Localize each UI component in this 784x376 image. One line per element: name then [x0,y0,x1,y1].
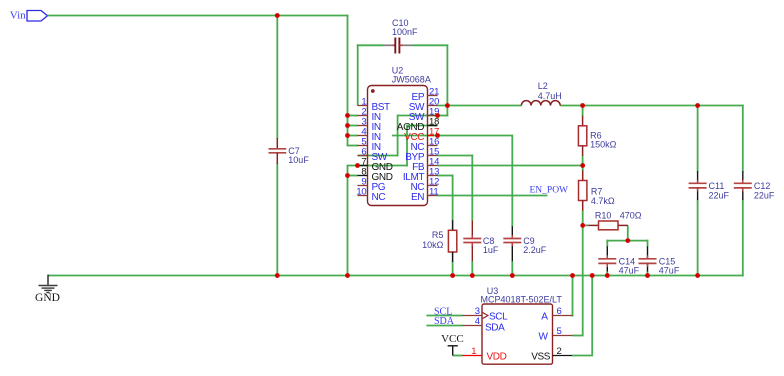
U3 designator label [487,286,499,296]
svg-text:2.2uF: 2.2uF [523,245,547,255]
C7 value label [288,155,309,165]
U2 pin 4 IN [358,127,381,144]
capacitor C14 [598,246,616,271]
junction R7/R10/W [580,223,585,228]
U2 pin 10 NC [356,187,385,204]
R6 value label [590,140,617,150]
wire ILMT branch down to R5 [452,175,454,221]
R5 value label [422,240,444,250]
junction pin4 [345,133,350,138]
U2 pin 7 GND [358,157,393,174]
capacitor C9 [503,226,521,261]
wire GND stem [47,275,49,286]
svg-text:100nF: 100nF [392,27,418,37]
U3 pin 2 VSS [531,346,572,362]
svg-text:4.7kΩ: 4.7kΩ [591,196,615,206]
C12 designator label [754,181,771,191]
C9 designator label [523,236,535,246]
wire pin19 through IC [399,115,438,117]
junction pin17 stub [435,133,440,138]
wire U3 VSS jumper [572,355,593,357]
wire right edge down C12 upper [742,105,744,172]
wire jumper pin3 [348,125,359,127]
port Vin [10,10,48,22]
wire VCC to VDD [453,355,463,357]
wire BYP pin15 [438,155,474,157]
U3 pin 5 W [538,326,572,342]
U2 pin 15 BYP [405,147,439,164]
U2 pin 17 VCC [404,127,439,144]
U2 pin 20 SW [409,97,439,114]
wire VCC pin17 [392,135,512,137]
C14 designator label [619,257,636,267]
wire C15 branch lower [647,271,649,276]
junction rail VSS [590,273,595,278]
wire pin19 to SW node [438,106,449,117]
U3 value label [481,295,563,305]
svg-text:150kΩ: 150kΩ [590,140,617,150]
R10 value label [620,210,642,220]
svg-text:470Ω: 470Ω [620,210,642,220]
wire vertical into IN pins [347,15,349,147]
svg-text:VCC: VCC [441,333,464,345]
wire ILMT pin13 [438,175,454,177]
junction rail GNDwire [345,273,350,278]
wire R5 to rail [452,262,454,277]
R10 designator label [595,210,612,220]
U2 pin 3 IN [358,117,381,134]
U2 pin 2 IN [358,107,381,124]
svg-text:6: 6 [557,306,562,317]
svg-text:4: 4 [475,316,480,327]
junction rail C14 [605,273,610,278]
wire R6 branch upper [582,106,584,117]
svg-text:11: 11 [429,187,438,198]
wire Vin to top-right corner [48,15,349,17]
R6 designator label [590,130,602,140]
wire jumper pin8 [348,175,359,177]
C8 designator label [483,236,495,246]
svg-text:10kΩ: 10kΩ [422,240,444,250]
wire ground rail [48,275,744,277]
svg-text:W: W [538,331,548,342]
junction pin8 [345,173,350,178]
svg-text:22uF: 22uF [709,190,730,200]
wire BYP branch down to C8 [471,155,473,222]
U2 pin 9 PG [358,177,386,194]
wire FB pin14 [438,165,583,167]
svg-text:VDD: VDD [487,351,507,362]
svg-text:10uF: 10uF [288,155,309,165]
svg-text:JW5068A: JW5068A [392,75,431,85]
op-amp U2 body JW5068A [368,86,428,206]
wire jumper pin4 [348,135,359,137]
capacitor C7 [269,138,287,164]
svg-text:R10: R10 [595,210,612,220]
svg-text:GND: GND [35,292,60,304]
wire SCL net [426,315,463,317]
wire C11 branch upper [697,106,699,172]
junction rail C11 [695,273,700,278]
capacitor C10 [383,38,413,54]
wire R7 branch lower [582,210,584,225]
L2 designator label [538,81,548,91]
wire C14 C15 bracket [606,240,648,242]
wire SW internal vertical [397,115,399,157]
wire C9 to rail [511,261,513,277]
U3 pin 4 SDA [463,316,506,333]
svg-text:A: A [541,311,548,322]
junction pin7 stub [355,163,360,168]
capacitor C11 [689,171,707,200]
svg-text:L2: L2 [538,81,548,91]
svg-text:SDA: SDA [485,322,505,333]
svg-text:1: 1 [471,346,476,357]
svg-text:R5: R5 [432,230,444,240]
ground GND [35,286,60,304]
U3 pin 6 A [541,306,572,322]
digital pot U3 body MCP4018T [482,304,553,364]
U2 pin 19 SW [409,107,439,124]
U2 pin 11 EN [411,187,438,204]
wire VCC branch down to C9 [511,135,513,227]
svg-text:47uF: 47uF [659,266,680,276]
junction rail C9 [510,273,515,278]
wire U3 A jumper [572,315,574,317]
svg-text:4.7uH: 4.7uH [538,91,562,101]
net label SCL [434,306,452,317]
C12 value label [754,190,775,200]
capacitor C8 [463,221,481,262]
wire SDA net [426,325,463,327]
junction rail A [570,273,575,278]
power VCC [441,333,464,356]
junction rail C7 [275,273,280,278]
wire GND vertical to rail [347,165,349,277]
net label EN_POW [530,186,569,196]
svg-text:10: 10 [356,187,366,198]
junction SW/C10 [445,103,450,108]
svg-text:SDA: SDA [434,316,455,327]
svg-text:R7: R7 [591,187,603,197]
junction rail C15 [645,273,650,278]
wire SW to pin6 [358,155,399,157]
wire SW output pin20 [438,105,522,107]
junction Vin/C7 [275,13,280,18]
wire C8 to rail [471,261,473,277]
svg-text:1uF: 1uF [483,245,499,255]
svg-text:EN: EN [411,192,424,203]
C11 value label [709,190,730,200]
U2 pin 8 GND [358,167,393,184]
wire jumper pin2 [348,115,359,117]
svg-text:NC: NC [372,192,386,203]
resistor R7 [579,171,587,211]
wire C11 branch lower [697,200,699,277]
U2 pin 18 AGND [397,117,439,134]
wire C12 branch lower [742,200,744,277]
C9 value label [523,245,547,255]
U2 pin 21 EP [412,87,440,104]
U2 value label [392,75,431,85]
junction pin3 [345,123,350,128]
wire C14 branch upper [606,240,608,247]
junction L2/R6 [580,103,585,108]
C10 value label [392,27,418,37]
C11 designator label [709,181,725,191]
U2 pin 12 NC [410,177,439,194]
U2 pin 14 FB [412,157,439,174]
svg-text:VSS: VSS [531,351,551,362]
U2 pin 1 BST [358,97,391,114]
wire jumper pin5 [348,145,359,147]
wire W branch down to U3 [582,225,584,335]
wire U3 W jumper [573,335,584,337]
R7 value label [591,196,615,206]
svg-text:22uF: 22uF [754,190,775,200]
C10 designator label [392,18,409,28]
wire C10 top right [413,44,449,46]
wire C10 left leg [357,44,359,105]
svg-text:SCL: SCL [489,311,508,322]
svg-text:Vin: Vin [10,10,26,22]
capacitor C12 [734,171,752,200]
wire R7 branch upper [582,166,584,172]
capacitor C15 [639,246,657,271]
U3 pin 1 VDD [463,346,507,362]
junction FB/R6/R7 [580,163,585,168]
svg-text:EN_POW: EN_POW [530,186,569,196]
svg-text:5: 5 [557,326,562,337]
U2 pin 6 SW [358,147,388,164]
junction R10/bracket [625,238,630,243]
wire C14 branch lower [606,271,608,276]
U2 pin 5 IN [358,137,381,154]
U2 pin 16 NC [410,137,439,154]
wire R6 branch lower [582,155,584,165]
U2 pin 13 ILMT [403,167,439,184]
resistor R6 [578,116,586,156]
U2 designator label [392,66,404,76]
inductor L2 [521,101,560,106]
wire U3 A branch [572,275,574,317]
resistor R10 [588,221,628,230]
wire C10 right leg [446,45,448,106]
wire L2 out to top-right [560,105,744,107]
C7 designator label [288,146,300,156]
svg-text:MCP4018T-502E/LT: MCP4018T-502E/LT [481,295,563,305]
C15 value label [659,266,680,276]
C14 value label [619,266,640,276]
junction pin19 stub [435,113,440,118]
junction pin2 [345,113,350,118]
junction rail C8 [470,273,475,278]
wire C10 top left [357,44,383,46]
junction C11 top [695,103,700,108]
net label SDA [434,316,455,327]
resistor R5 [448,220,456,262]
wire R10 right corner [627,225,629,241]
wire U3 VSS vertical [591,276,593,354]
R5 designator label [432,230,444,240]
C15 designator label [659,257,676,267]
wire C15 branch upper [647,240,649,247]
wire GND pin7 [348,165,408,167]
L2 value label [538,91,562,101]
wire R10 left jumper [583,224,589,226]
wire EN pin11 [438,195,548,197]
svg-text:47uF: 47uF [619,266,640,276]
wire AGND through IC [407,125,438,127]
junction rail R5 [450,273,455,278]
C8 value label [483,245,499,255]
wire C7 branch vertical upper [276,16,278,140]
wire C7 branch vertical lower [276,163,278,276]
svg-text:2: 2 [557,346,562,357]
wire AGND internal vertical [406,125,408,167]
U3 pin 3 SCL [463,306,509,322]
R7 designator label [591,187,603,197]
